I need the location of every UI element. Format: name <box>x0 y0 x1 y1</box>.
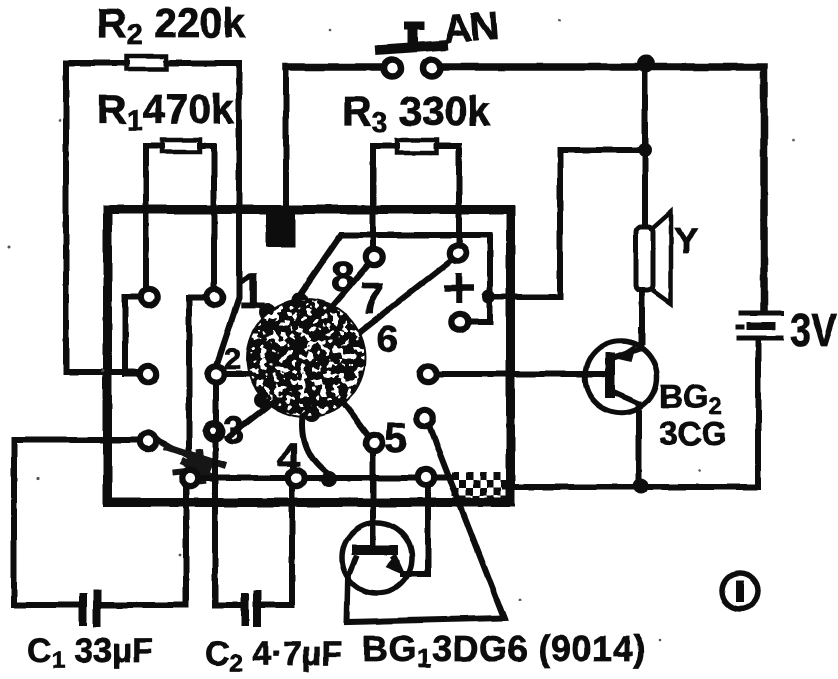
wire pin 2 to blob <box>227 371 252 377</box>
resistor R3 <box>397 140 437 153</box>
wire blob to pin 6 diagonal <box>361 262 449 331</box>
pin 6 <box>450 245 466 261</box>
wire battery negative down to ground bus <box>505 341 758 487</box>
junction mess smudge <box>164 446 226 484</box>
wire left entry to pin C <box>14 437 137 443</box>
junction dot top supply / speaker branch <box>637 55 655 73</box>
figure number mark <box>722 573 758 609</box>
wire speaker to BG2 <box>639 290 645 342</box>
wire BG1 collector to bottom loop <box>347 428 504 622</box>
svg-text:5: 5 <box>384 414 407 461</box>
pin 2 <box>208 366 224 382</box>
svg-text:C2 4·7µF: C2 4·7µF <box>205 635 342 677</box>
pin 3 filled <box>203 420 225 442</box>
resistor R2 <box>127 56 166 69</box>
junction dot BG2 emitter on bus <box>633 478 649 494</box>
wire BG2 collector up to speaker <box>638 330 644 347</box>
svg-text:Y: Y <box>674 220 698 261</box>
svg-text:R2 220k: R2 220k <box>97 0 246 51</box>
wire BG2 base to board pin <box>439 371 606 377</box>
transistor BG1 (3DG6 NPN) <box>342 523 412 593</box>
svg-text:7: 7 <box>360 274 384 323</box>
speaker Y <box>636 212 671 303</box>
switch AN pushbutton <box>375 24 448 77</box>
hatched corner block <box>452 472 515 504</box>
wire blob to pin 5 <box>343 402 367 434</box>
pin 1 <box>207 289 223 305</box>
wire pin C to mess <box>159 441 200 462</box>
pin K collector pin <box>417 410 433 426</box>
capacitor C2 <box>215 442 292 627</box>
wire switch down to board pad <box>283 67 289 209</box>
pad on board top edge <box>266 209 295 247</box>
resistor R1 <box>162 140 200 152</box>
svg-text:2: 2 <box>224 341 241 376</box>
svg-text:8: 8 <box>331 253 354 300</box>
battery 3V <box>736 313 784 338</box>
wire pin J to hatch corner <box>437 474 455 480</box>
wire top supply left of switch <box>286 63 381 71</box>
capacitor C1 <box>14 440 186 627</box>
wire BG1 emitter to pin J <box>403 488 428 574</box>
junction node dot speaker branch <box>638 143 652 157</box>
svg-text:3CG: 3CG <box>659 415 727 452</box>
junction dot on pin8 route <box>482 290 496 304</box>
svg-text:3: 3 <box>223 410 244 452</box>
pin C <box>140 433 156 449</box>
wire node to board pin 8 route <box>492 150 645 297</box>
wire blob to bus dot <box>303 416 328 473</box>
wire blob to pin 7 <box>331 267 366 308</box>
wire speaker branch down <box>642 66 648 228</box>
pin M below plus <box>452 314 468 330</box>
wire jog pin A to pin B <box>125 297 138 374</box>
pin L base feed pin <box>420 366 436 382</box>
wire R2 left leg to board pin B <box>66 63 137 372</box>
wire BG1 base from pin 5 <box>370 454 376 546</box>
svg-text:AN: AN <box>442 4 499 52</box>
pin 5 <box>366 435 382 451</box>
wire top supply right of switch to battery top <box>443 67 764 311</box>
junction dot on bus <box>321 471 337 487</box>
pin G <box>182 470 198 486</box>
wire R3 left leg to pin 7 <box>373 146 397 246</box>
wire blob to pin 3 <box>228 403 272 437</box>
svg-text:4: 4 <box>277 434 301 481</box>
wire R2 right leg down to pin 3 area <box>166 63 239 364</box>
svg-text:3V: 3V <box>790 304 837 356</box>
pin 7 <box>366 249 382 265</box>
board outline (module PCB) <box>108 210 511 503</box>
wire blob pin 8 routed to pin below plus <box>298 235 490 322</box>
pin A <box>141 289 157 305</box>
svg-text:R1470k: R1470k <box>97 86 234 137</box>
transistor BG2 (3CG PNP) <box>585 341 657 413</box>
pin 4 <box>288 470 304 486</box>
svg-text:C1 33µF: C1 33µF <box>27 632 153 674</box>
bus wire inside board <box>201 475 415 481</box>
wire BG2 emitter down to bus <box>636 404 642 484</box>
wire R1 right leg to pin 1 <box>200 146 214 286</box>
pin B <box>140 366 156 382</box>
plus sign <box>444 273 474 303</box>
IC chip blob <box>246 292 366 422</box>
svg-text:6: 6 <box>377 319 398 361</box>
wire pin1 jog down to mess <box>189 297 204 450</box>
wire pin2 down to pin3 <box>213 385 219 420</box>
svg-text:1: 1 <box>238 263 266 319</box>
wire R3 right leg to pin 6 <box>437 146 459 242</box>
wire R1 left leg to pin A <box>146 146 162 286</box>
svg-text:BG13DG6 (9014): BG13DG6 (9014) <box>362 628 646 673</box>
pin J on bus <box>418 469 434 485</box>
svg-text:R3 330k: R3 330k <box>342 88 491 139</box>
